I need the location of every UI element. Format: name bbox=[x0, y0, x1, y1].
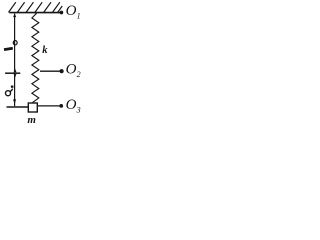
node dot O2 bbox=[60, 69, 64, 73]
label delta-st: tail of delta bbox=[10, 89, 13, 92]
spring k bbox=[32, 13, 39, 102]
dimension shaft delta-st bbox=[14, 74, 16, 106]
label delta-st: bowl of delta bbox=[6, 91, 11, 96]
arrowhead down (bottom of delta, at bottom line) bbox=[13, 99, 16, 104]
ceiling hatch 3 bbox=[26, 2, 33, 12]
bottom equilibrium line left segment bbox=[7, 106, 29, 108]
ceiling hatch 2 bbox=[17, 2, 24, 12]
svg-text:k: k bbox=[42, 45, 48, 56]
arrowhead down (bottom of l0, at tick) bbox=[14, 68, 17, 72]
label l0: subscript 0 ring bbox=[13, 41, 17, 45]
svg-text:m: m bbox=[27, 114, 36, 126]
arrowhead up (top of l0, at ceiling) bbox=[13, 14, 16, 18]
level line O2 bbox=[40, 70, 60, 72]
ceiling line bbox=[9, 12, 61, 14]
ceiling hatch 7 bbox=[58, 6, 62, 12]
node dot O3 bbox=[59, 104, 63, 108]
dimension shaft l0 bbox=[14, 14, 16, 73]
ceiling hatch 4 bbox=[35, 2, 42, 12]
level line O3 right segment bbox=[38, 105, 60, 107]
node dot O1 bbox=[60, 11, 64, 15]
label l0 (natural length, rotated): stroke of the letter l bbox=[4, 48, 13, 49]
dimension tick between l0 and delta bbox=[5, 72, 20, 74]
mass block m bbox=[28, 103, 37, 112]
ceiling hatch 6 bbox=[53, 2, 60, 12]
label delta-st: subscript st mark bbox=[11, 86, 14, 88]
arrowhead up (top of delta, below tick) bbox=[14, 74, 17, 78]
ceiling hatch 5 bbox=[44, 2, 51, 12]
ceiling hatch 1 bbox=[9, 2, 16, 12]
